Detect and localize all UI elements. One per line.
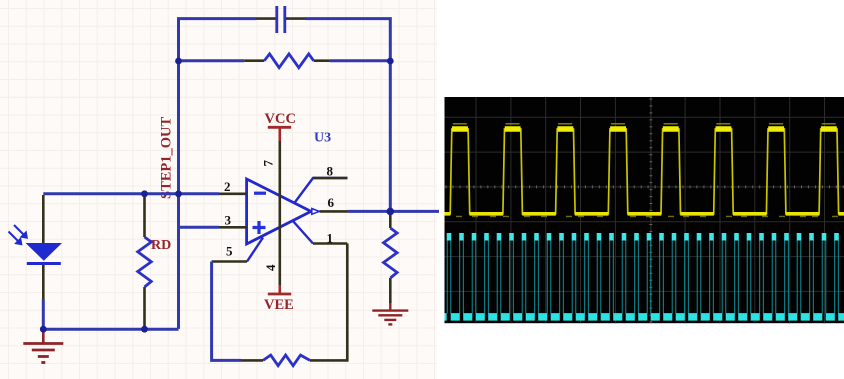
svg-text:1: 1	[327, 231, 334, 246]
junction: inverting input / STEP1_OUT	[175, 190, 182, 197]
svg-text:RD: RD	[151, 238, 171, 253]
yellow trace (CH1 square wave)	[445, 124, 844, 217]
svg-text:8: 8	[327, 164, 334, 179]
svg-text:STEP1_OUT: STEP1_OUT	[159, 116, 175, 199]
junction: RD bottom	[141, 326, 148, 333]
photodiode	[9, 195, 61, 329]
wire: output load branch	[389, 61, 392, 211]
pin 6 output	[320, 210, 348, 213]
svg-text:U3: U3	[314, 131, 331, 146]
wire: output net to scope	[347, 210, 439, 213]
resistor (balance)	[241, 355, 332, 366]
resistor (feedback)	[244, 54, 330, 68]
wire: bottom ground rail	[43, 328, 178, 331]
pin 5	[212, 238, 263, 262]
wire: balance loop (pins 5-1)	[212, 262, 241, 361]
wire: top feedback (capacitor branch)	[179, 19, 257, 61]
capacitor (feedback)	[256, 6, 306, 33]
scope center axes	[445, 97, 844, 323]
svg-text:4: 4	[263, 264, 278, 271]
op-amp U3	[247, 131, 332, 245]
pin 8	[295, 164, 348, 203]
svg-text:3: 3	[225, 213, 232, 228]
svg-text:VEE: VEE	[264, 297, 294, 313]
pin 2	[219, 193, 247, 196]
junction: feedback net right	[387, 58, 394, 65]
cyan trace (CH2 pulse train)	[445, 233, 844, 317]
resistor RD	[138, 195, 172, 328]
wire: STEP1_OUT vertical net	[177, 61, 180, 329]
wire: inverting input (pin 2 net)	[43, 192, 219, 195]
VEE power symbol	[264, 285, 294, 313]
svg-text:2: 2	[224, 179, 231, 194]
wire: feedback resistor branch	[179, 59, 391, 62]
ground (right)	[372, 303, 408, 324]
junction: photodiode cathode / ground rail	[40, 326, 47, 333]
junction: output node	[387, 208, 395, 216]
pin 3	[219, 226, 247, 229]
junction: feedback net left	[175, 58, 182, 65]
svg-text:5: 5	[226, 244, 233, 259]
pin 7 / pin 4 vertical	[278, 141, 281, 285]
svg-text:6: 6	[328, 195, 335, 210]
oscilloscope screen	[445, 97, 844, 323]
VCC power symbol	[265, 111, 296, 141]
pin 1	[293, 221, 348, 246]
scope graticule	[445, 97, 844, 323]
resistor (load)	[384, 211, 398, 303]
scope axis ticks	[446, 99, 843, 322]
svg-text:7: 7	[261, 160, 276, 167]
junction: RD top	[141, 190, 148, 197]
ground (left)	[23, 331, 63, 363]
svg-text:VCC: VCC	[265, 111, 296, 127]
wire: non-inverting input (pin 3 net)	[179, 226, 220, 229]
